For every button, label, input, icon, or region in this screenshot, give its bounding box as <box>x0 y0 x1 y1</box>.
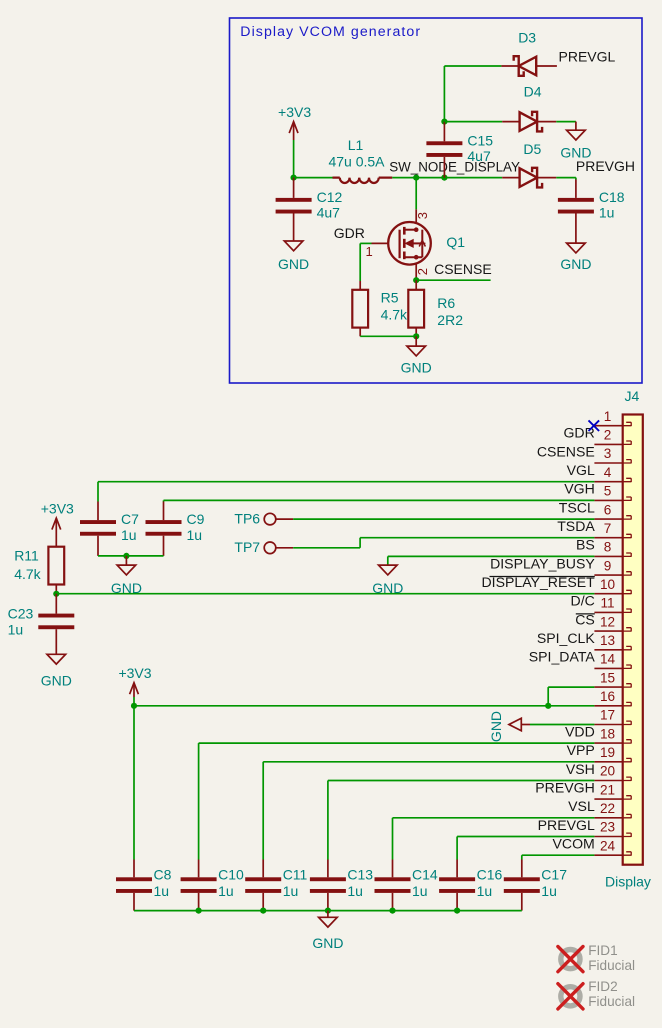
wire C7/C9 ground bus <box>98 555 164 557</box>
svg-text:1u: 1u <box>218 883 234 899</box>
wire L1 to Q1 drain node <box>392 177 416 179</box>
svg-text:PREVGH: PREVGH <box>535 779 595 795</box>
ground stem (D4) <box>575 122 577 131</box>
svg-text:2: 2 <box>604 428 612 443</box>
svg-text:TP7: TP7 <box>234 539 260 555</box>
resistor R5 bottom pin <box>359 328 361 337</box>
junction C7/C9 GND <box>123 553 129 559</box>
pin 4 stub <box>623 478 632 482</box>
resistor R5 top pin <box>359 281 361 290</box>
ground GND (C18) <box>567 243 586 253</box>
svg-text:L1: L1 <box>348 137 364 153</box>
ground GND (R5 R6) <box>407 346 426 356</box>
capacitor C11 top pin <box>262 860 264 878</box>
wire pin15 down to pin16 net <box>547 687 549 706</box>
pin 11 stub <box>623 609 632 613</box>
svg-text:11: 11 <box>600 596 614 611</box>
capacitor C13 top pin <box>327 860 329 878</box>
wire gate <box>360 242 371 244</box>
test point TP6 <box>264 513 276 525</box>
svg-text:SW_NODE_DISPLAY: SW_NODE_DISPLAY <box>389 159 520 174</box>
pin TP7 <box>276 547 293 549</box>
capacitor C18 <box>558 198 594 214</box>
pin 16 of J4 <box>594 705 622 707</box>
svg-text:1u: 1u <box>347 883 363 899</box>
ground GND (D4) <box>567 130 586 140</box>
power pin +3V3 <box>133 683 135 697</box>
svg-text:GND: GND <box>488 711 504 742</box>
pin Q1 drain (3) <box>415 209 417 222</box>
pin 16 stub <box>623 702 632 706</box>
resistor R6 top pin <box>415 280 417 290</box>
pin 18 stub <box>623 740 632 744</box>
wire C16 column <box>456 837 458 860</box>
resistor R6 <box>408 290 424 328</box>
capacitor C8 bottom pin <box>133 893 135 911</box>
resistor R6 bottom pin <box>415 328 417 337</box>
pin 9 stub <box>623 572 632 576</box>
svg-text:16: 16 <box>600 689 615 704</box>
capacitor C12 <box>276 198 312 214</box>
svg-text:VGL: VGL <box>567 462 595 478</box>
wire gate down to R5 <box>359 243 361 281</box>
junction ground bus <box>454 908 460 914</box>
wire BS (pin 8) <box>388 555 595 557</box>
wire TSCL (pin 6) <box>293 518 594 520</box>
wire TSDA (pin 7) <box>360 537 594 539</box>
svg-text:1u: 1u <box>541 883 557 899</box>
svg-text:5: 5 <box>604 484 612 499</box>
wire C17 column <box>521 855 523 859</box>
capacitor C16 bottom pin <box>456 893 458 911</box>
svg-text:GDR: GDR <box>334 225 365 241</box>
wire C8 column <box>133 706 135 860</box>
pin 3 of J4 <box>594 462 622 464</box>
svg-text:4: 4 <box>604 465 612 480</box>
svg-text:2R2: 2R2 <box>437 312 463 328</box>
wire TP7 jog up <box>359 538 361 548</box>
wire VDD (pin 18) <box>199 742 595 744</box>
pin 17 of J4 <box>594 724 622 726</box>
pin 5 of J4 <box>594 499 622 501</box>
svg-text:PREVGL: PREVGL <box>538 817 595 833</box>
resistor R11 <box>48 547 64 585</box>
wire PREVGL (pin 23) <box>457 836 594 838</box>
pin 10 stub <box>623 590 632 594</box>
pin 15 of J4 <box>594 686 622 688</box>
svg-text:8: 8 <box>604 540 612 555</box>
svg-text:C10: C10 <box>218 866 244 882</box>
pin D3 anode <box>536 65 557 67</box>
junction Q1 source / CSENSE <box>413 277 419 283</box>
pin 5 stub <box>623 497 632 501</box>
junction pin15/pin16 <box>545 703 551 709</box>
wire VSL (pin 22) <box>393 817 595 819</box>
wire R5 to GND node <box>360 335 416 337</box>
svg-text:1u: 1u <box>283 883 299 899</box>
pin D5 cathode <box>537 177 556 179</box>
pin 14 stub <box>623 665 632 669</box>
wire capacitor ground bus <box>134 910 522 912</box>
pin 13 of J4 <box>594 649 622 651</box>
svg-text:D4: D4 <box>524 84 542 100</box>
svg-text:GND: GND <box>278 256 309 272</box>
svg-text:C15: C15 <box>467 132 493 148</box>
capacitor C14 <box>375 877 411 893</box>
capacitor C16 <box>439 877 475 893</box>
svg-text:1u: 1u <box>8 622 24 638</box>
wire CSENSE <box>416 279 490 281</box>
svg-text:1u: 1u <box>599 205 615 221</box>
ground GND (C7 C9) <box>117 565 136 575</box>
svg-text:4u7: 4u7 <box>317 205 341 221</box>
svg-text:SPI_CLK: SPI_CLK <box>537 630 596 646</box>
svg-text:CSENSE: CSENSE <box>434 261 492 277</box>
svg-text:D/C: D/C <box>571 593 595 609</box>
capacitor C10 bottom pin <box>198 893 200 911</box>
wire +3V3 to pin16 net <box>133 697 135 706</box>
no-connect pin 1 <box>589 420 600 431</box>
wire C13 column <box>327 781 329 860</box>
svg-text:Fiducial: Fiducial <box>588 958 635 973</box>
svg-text:C16: C16 <box>477 866 503 882</box>
svg-text:1: 1 <box>366 244 373 259</box>
pin 23 of J4 <box>594 836 622 838</box>
wire VSH (pin 20) <box>328 780 595 782</box>
wire VPP (pin 19) <box>263 761 594 763</box>
pin 24 stub <box>623 852 632 856</box>
svg-text:C9: C9 <box>187 511 205 527</box>
test point TP7 <box>264 542 276 554</box>
capacitor C9 bottom pin <box>163 536 165 556</box>
svg-text:FID2: FID2 <box>588 979 617 994</box>
svg-text:D3: D3 <box>518 30 536 46</box>
inductor L1 <box>333 178 393 183</box>
pin 21 of J4 <box>594 798 622 800</box>
pin 4 of J4 <box>594 481 622 483</box>
power pin / R11 top pin <box>55 518 57 547</box>
pin Q1 gate (1) <box>372 242 389 244</box>
pin D3 cathode <box>501 65 518 67</box>
svg-text:1u: 1u <box>187 527 203 543</box>
ground GND (C12) <box>284 241 303 251</box>
wire node to L1 <box>294 177 333 179</box>
svg-text:21: 21 <box>600 782 615 797</box>
junction ground bus <box>196 908 202 914</box>
capacitor C16 top pin <box>456 860 458 878</box>
overbar CS <box>576 613 595 615</box>
svg-text:Display VCOM generator: Display VCOM generator <box>240 24 421 40</box>
capacitor C12 top pin <box>293 178 295 198</box>
junction SW node / C15 <box>441 175 447 181</box>
connector J4 body <box>623 415 643 865</box>
svg-text:C11: C11 <box>283 866 308 882</box>
wire C14 column <box>392 818 394 860</box>
pin 19 stub <box>623 758 632 762</box>
svg-text:1u: 1u <box>477 883 493 899</box>
svg-text:23: 23 <box>600 820 615 835</box>
junction SW node / Q1 drain <box>413 175 419 181</box>
svg-text:3: 3 <box>415 212 430 219</box>
capacitor C15 top pin <box>443 122 445 142</box>
pin 11 of J4 <box>594 611 622 613</box>
svg-text:18: 18 <box>600 726 615 741</box>
pin 12 stub <box>623 628 632 632</box>
capacitor C23 bottom pin <box>55 629 57 654</box>
ground flag GND (pin 17) <box>509 718 521 730</box>
capacitor C8 top pin <box>133 860 135 878</box>
svg-text:Display: Display <box>605 873 651 889</box>
pin 10 of J4 <box>594 593 622 595</box>
svg-text:3: 3 <box>604 446 612 461</box>
fiducial FID1 <box>558 947 583 972</box>
junction C15/D4 <box>441 119 447 125</box>
wire SW node <box>416 177 444 179</box>
resistor R5 <box>352 290 368 328</box>
svg-text:C12: C12 <box>317 189 343 205</box>
svg-text:GDR: GDR <box>563 425 594 441</box>
pin 13 stub <box>623 646 632 650</box>
svg-text:VSL: VSL <box>568 798 595 814</box>
pin 18 of J4 <box>594 742 622 744</box>
junction +3V3/L1/C12 <box>291 175 297 181</box>
svg-text:GND: GND <box>401 360 432 376</box>
wire to D4 anode <box>444 121 502 123</box>
svg-text:TSDA: TSDA <box>557 518 595 534</box>
pin 6 of J4 <box>594 518 622 520</box>
capacitor C11 <box>245 877 281 893</box>
svg-text:GND: GND <box>312 935 343 951</box>
svg-text:1: 1 <box>604 409 612 424</box>
svg-text:FID1: FID1 <box>588 943 617 958</box>
wire DISPLAY_RESET (pin 10) <box>56 593 594 595</box>
note box Display VCOM generator <box>230 18 643 383</box>
pin 9 of J4 <box>594 574 622 576</box>
svg-text:C13: C13 <box>347 866 373 882</box>
capacitor C9 top pin <box>163 502 165 521</box>
svg-text:+3V3: +3V3 <box>41 501 74 517</box>
capacitor C11 bottom pin <box>262 893 264 911</box>
svg-text:4.7k: 4.7k <box>14 566 41 582</box>
pin 23 stub <box>623 833 632 837</box>
pin 7 of J4 <box>594 537 622 539</box>
pin 20 stub <box>623 777 632 781</box>
wire SW node to D5 <box>444 177 502 179</box>
svg-text:TP6: TP6 <box>234 511 260 527</box>
pin 2 stub <box>623 441 632 445</box>
wire +3V3 (pin 16) <box>134 705 594 707</box>
svg-text:PREVGL: PREVGL <box>559 48 616 64</box>
capacitor C15 <box>426 141 462 157</box>
pin 6 stub <box>623 516 632 520</box>
svg-text:J4: J4 <box>625 388 640 404</box>
capacitor C13 bottom pin <box>327 893 329 911</box>
wire D3 branch vertical <box>443 66 445 122</box>
resistor R11 bottom pin <box>55 585 57 594</box>
svg-text:13: 13 <box>600 633 615 648</box>
capacitor C13 <box>310 877 346 893</box>
power +3V3 (display supply) <box>130 683 139 695</box>
svg-text:VSH: VSH <box>566 761 595 777</box>
ground stem (C7 C9) <box>125 556 127 565</box>
svg-text:C7: C7 <box>121 511 139 527</box>
pin D4 anode <box>502 121 519 123</box>
junction R5/R6/GND <box>413 333 419 339</box>
wire pin 15 <box>548 686 594 688</box>
capacitor C17 top pin <box>521 860 523 878</box>
svg-text:19: 19 <box>600 745 615 760</box>
capacitor C7 top pin <box>97 502 99 521</box>
svg-text:C17: C17 <box>541 866 567 882</box>
svg-text:Q1: Q1 <box>446 234 465 250</box>
svg-text:VCOM: VCOM <box>553 836 595 852</box>
wire +3V3 to node <box>293 140 295 178</box>
svg-text:C18: C18 <box>599 189 625 205</box>
ground stem (bus) <box>327 911 329 918</box>
ground stem (R5 R6) <box>415 336 417 346</box>
svg-text:C23: C23 <box>8 606 34 622</box>
svg-text:C14: C14 <box>412 866 438 882</box>
capacitor C18 top pin <box>575 180 577 198</box>
capacitor C15 bottom pin <box>443 157 445 178</box>
junction ground bus <box>325 908 331 914</box>
wire PREVGH corner <box>575 178 577 180</box>
svg-text:15: 15 <box>600 670 615 685</box>
pin TP6 <box>276 518 293 520</box>
capacitor C18 bottom pin <box>575 214 577 244</box>
transistor Q1 (N-MOSFET) <box>388 222 431 265</box>
capacitor C10 top pin <box>198 860 200 878</box>
junction ground bus <box>389 908 395 914</box>
pin 20 of J4 <box>594 780 622 782</box>
svg-text:1u: 1u <box>154 883 170 899</box>
svg-text:R5: R5 <box>381 290 399 306</box>
pin D5 anode <box>502 177 519 179</box>
pin D4 cathode <box>537 121 556 123</box>
pin 8 stub <box>623 553 632 557</box>
wire D5 to PREVGH node <box>556 177 576 179</box>
svg-text:12: 12 <box>600 614 615 629</box>
diode D3 (Schottky) <box>514 56 537 76</box>
pin 17 stub <box>623 721 632 725</box>
ground GND (capacitor bus) <box>319 917 338 927</box>
svg-text:C8: C8 <box>154 866 172 882</box>
wire VGH down to C9 <box>163 500 165 501</box>
svg-text:24: 24 <box>600 838 616 853</box>
wire VGL (pin 4) <box>98 481 594 483</box>
svg-text:1u: 1u <box>412 883 428 899</box>
svg-text:R6: R6 <box>437 295 455 311</box>
wire C10 column <box>198 743 200 859</box>
svg-text:TSCL: TSCL <box>559 499 595 515</box>
capacitor C10 <box>181 877 217 893</box>
svg-text:CSENSE: CSENSE <box>537 443 595 459</box>
svg-text:GND: GND <box>560 256 591 272</box>
junction R11/C23/DISPLAY_RESET <box>53 591 59 597</box>
wire GND (pin 17) <box>530 724 594 726</box>
svg-text:+3V3: +3V3 <box>118 665 151 681</box>
pin Q1 source (2) <box>415 264 417 280</box>
capacitor C14 top pin <box>392 860 394 878</box>
fiducial FID2 <box>558 984 583 1009</box>
svg-text:22: 22 <box>600 801 615 816</box>
pin 19 of J4 <box>594 761 622 763</box>
power +3V3 (R11) <box>52 518 61 530</box>
wire BS down to GND <box>387 556 389 565</box>
pin 24 of J4 <box>594 854 622 856</box>
pin 15 stub <box>623 684 632 688</box>
svg-text:2: 2 <box>415 268 430 275</box>
svg-text:7: 7 <box>604 521 612 536</box>
pin 1 of J4 <box>594 425 622 427</box>
svg-text:47u 0.5A: 47u 0.5A <box>328 154 385 170</box>
capacitor C23 top pin <box>55 594 57 614</box>
pin 21 stub <box>623 796 632 800</box>
ground GND (C23) <box>47 654 66 664</box>
wire VCOM (pin 24) <box>522 854 595 856</box>
wire VGL down to C7 <box>97 482 99 502</box>
svg-text:DISPLAY_BUSY: DISPLAY_BUSY <box>490 555 595 571</box>
svg-text:4u7: 4u7 <box>467 148 491 164</box>
capacitor C7 <box>80 520 116 536</box>
capacitor C14 bottom pin <box>392 893 394 911</box>
wire Q1 drain to SW node <box>415 178 417 210</box>
capacitor C23 <box>38 614 74 630</box>
pin 22 of J4 <box>594 817 622 819</box>
svg-text:SPI_DATA: SPI_DATA <box>529 649 596 665</box>
pin 12 of J4 <box>594 630 622 632</box>
pin 22 stub <box>623 814 632 818</box>
svg-text:Fiducial: Fiducial <box>588 994 635 1009</box>
capacitor C12 bottom pin <box>293 214 295 242</box>
svg-text:PREVGH: PREVGH <box>576 158 635 174</box>
svg-text:4.7k: 4.7k <box>381 307 408 323</box>
pin 1 stub <box>623 422 632 426</box>
diode D5 (Schottky) <box>520 168 543 188</box>
capacitor C9 <box>146 520 182 536</box>
svg-text:VPP: VPP <box>567 742 595 758</box>
svg-text:9: 9 <box>604 558 612 573</box>
svg-text:D5: D5 <box>523 141 541 157</box>
power pin +3V3 <box>293 122 295 140</box>
svg-text:+3V3: +3V3 <box>278 104 311 120</box>
svg-text:17: 17 <box>600 708 615 723</box>
ground flag stem <box>521 724 530 726</box>
ground GND (BS) <box>379 565 398 575</box>
pin 3 stub <box>623 460 632 464</box>
svg-text:VDD: VDD <box>565 723 595 739</box>
capacitor C8 <box>116 877 152 893</box>
svg-text:10: 10 <box>600 577 616 592</box>
wire to D3 cathode <box>444 65 501 67</box>
svg-text:14: 14 <box>600 652 616 667</box>
svg-text:20: 20 <box>600 764 616 779</box>
junction +3V3/C8 <box>131 703 137 709</box>
wire VGH (pin 5) <box>164 499 595 501</box>
pin 14 of J4 <box>594 667 622 669</box>
capacitor C7 bottom pin <box>97 536 99 556</box>
diode D4 (Schottky) <box>520 112 543 132</box>
power +3V3 (VCOM generator) <box>289 122 298 134</box>
pin 8 of J4 <box>594 555 622 557</box>
pin 2 of J4 <box>594 443 622 445</box>
svg-text:BS: BS <box>576 537 595 553</box>
svg-text:1u: 1u <box>121 527 137 543</box>
svg-text:VGH: VGH <box>564 481 595 497</box>
wire D4 to GND <box>556 121 576 123</box>
junction ground bus <box>260 908 266 914</box>
svg-text:R11: R11 <box>14 547 39 563</box>
